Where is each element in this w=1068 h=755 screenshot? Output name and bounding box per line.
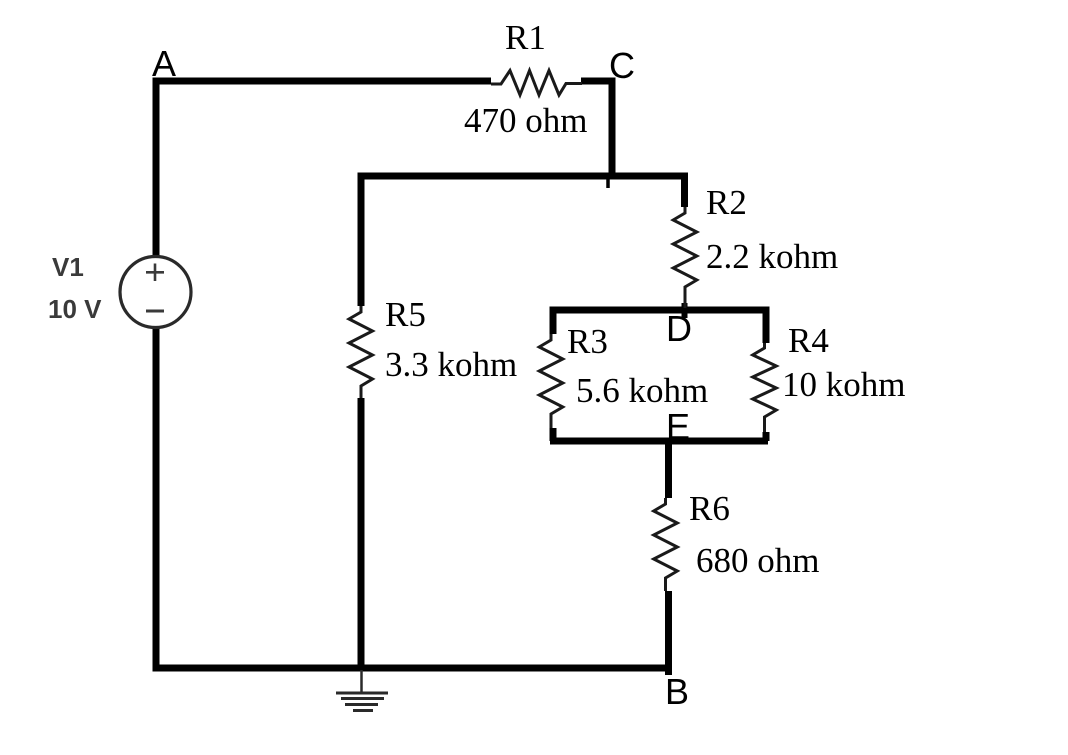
svg-text:R4: R4 (788, 321, 829, 360)
resistor R1 zigzag (491, 71, 582, 96)
wire R5 bottom lead (358, 398, 365, 668)
wire node E down to R6 top lead (665, 441, 672, 498)
V1 plus sign (146, 264, 164, 282)
wire V1 minus terminal down to bottom rail (153, 294, 160, 668)
svg-text:C: C (609, 45, 635, 86)
svg-text:A: A (152, 43, 176, 84)
resistor R3 zigzag (539, 334, 563, 428)
wire R4 top lead (763, 307, 770, 344)
resistor R5 zigzag (349, 306, 373, 398)
svg-text:2.2 kohm: 2.2 kohm (706, 237, 838, 276)
svg-text:680 ohm: 680 ohm (696, 541, 819, 580)
wire R3 bottom lead (550, 428, 557, 441)
svg-text:R6: R6 (689, 489, 730, 528)
wire D row horizontal (550, 307, 768, 314)
wire mid rail corner down to R2 top lead (681, 173, 688, 208)
wire R6 bottom lead to node B (665, 591, 672, 675)
svg-text:470 ohm: 470 ohm (464, 101, 587, 140)
svg-text:E: E (666, 406, 690, 447)
resistor R4 zigzag (753, 343, 777, 432)
svg-text:10 V: 10 V (48, 294, 102, 324)
svg-text:R3: R3 (567, 322, 608, 361)
wire node A to R1 left lead (153, 78, 492, 85)
wire R4 bottom lead (763, 432, 770, 441)
wire R3 top lead (550, 307, 557, 335)
resistor R6 zigzag (654, 498, 678, 591)
svg-text:B: B (665, 671, 689, 712)
svg-text:5.6 kohm: 5.6 kohm (576, 371, 708, 410)
svg-text:R1: R1 (505, 18, 546, 57)
resistor R2 zigzag (673, 207, 697, 308)
wire R1 right lead to node C (581, 78, 612, 85)
wire mid rail horizontal (358, 173, 685, 180)
V1 minus sign (146, 310, 164, 313)
voltage source V1 circle (120, 257, 191, 328)
svg-text:D: D (666, 308, 692, 349)
wire R5 top lead (358, 173, 365, 307)
node C junction tick (606, 177, 610, 188)
wire node C down to mid rail (609, 78, 616, 177)
svg-text:10 kohm: 10 kohm (782, 365, 905, 404)
svg-text:3.3 kohm: 3.3 kohm (385, 345, 517, 384)
svg-text:R5: R5 (385, 295, 426, 334)
wire bottom rail to node B (153, 665, 669, 672)
ground symbol (336, 670, 388, 711)
wire R2 bottom stub through node D (682, 303, 688, 318)
svg-text:V1: V1 (52, 252, 84, 282)
wire E row horizontal (550, 438, 768, 445)
wire node A to V1 plus terminal (153, 81, 160, 290)
svg-text:R2: R2 (706, 183, 747, 222)
